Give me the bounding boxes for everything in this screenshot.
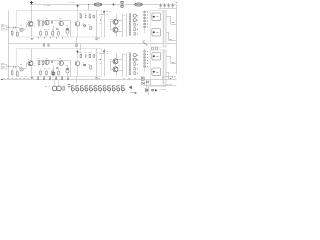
- wire driver emitters a: [116, 14, 117, 37]
- wire bus to ch2 box: [80, 44, 82, 51]
- arrow on feed wire a: [77, 5, 79, 7]
- capacitor C5-b: [56, 68, 58, 69]
- wire ground return under caps: [159, 8, 177, 10]
- transistor Q1-a: [27, 21, 34, 28]
- resistor R5-a: [90, 19, 101, 29]
- wire vertical 104 a: [104, 11, 106, 38]
- input connector J-a: [1, 25, 6, 30]
- capacitor C9 across rail: [121, 1, 123, 7]
- ground stubs a: [38, 37, 40, 39]
- ground stubs b: [38, 77, 40, 79]
- wire coupling a: [26, 24, 28, 28]
- terminal mark bus left end: [1, 79, 3, 81]
- wire driver outputs b: [118, 60, 122, 71]
- wire input b: [7, 66, 20, 67]
- electrolytic C3-a: [66, 26, 69, 37]
- micro labels bottom left: [3, 78, 33, 80]
- wire driver bases b: [110, 61, 113, 69]
- wire diode ladder b: [144, 49, 146, 73]
- resistor R2-a: [17, 30, 19, 37]
- heatsink b: [164, 50, 166, 87]
- ground symbol a: [31, 39, 34, 40]
- label near meters: [45, 86, 50, 88]
- label bottom right: [161, 89, 166, 91]
- component mid right pair: [152, 47, 158, 50]
- sense dots b: [137, 55, 138, 56]
- filter capacitor C12: [168, 3, 170, 8]
- diode D1-b: [84, 64, 86, 66]
- transistor Q2-a: [45, 19, 49, 25]
- tick on mid bus 1: [43, 44, 44, 46]
- wire vertical x53.5 a: [53, 26, 55, 37]
- transistor Q4-a: [75, 5, 81, 38]
- label bottom B: [61, 76, 63, 78]
- wire Q1 emitter b: [31, 68, 33, 77]
- diode ladder a: [144, 11, 148, 12]
- relay box bottom right: [141, 77, 144, 80]
- capacitor C2-b: [52, 61, 53, 64]
- resistor R4-b: [42, 60, 44, 67]
- arrow on feed wire b: [77, 51, 79, 53]
- resistor R4-a: [42, 21, 44, 28]
- wire B+ drop to Q1a: [31, 5, 33, 22]
- wire diode ladder a: [144, 11, 146, 34]
- arrow under header: [131, 92, 137, 94]
- bottom right wires: [144, 80, 177, 96]
- capacitor C1-b: [14, 66, 16, 69]
- output module box b: [151, 50, 164, 87]
- resistor row to ground a: [40, 29, 42, 37]
- output module box a: [151, 11, 164, 48]
- wire stage link b: [19, 67, 21, 69]
- label on wire right: [167, 84, 172, 86]
- diode ladder b: [144, 51, 148, 52]
- filter capacitor C10: [160, 3, 162, 8]
- diode D-br0: [142, 82, 145, 84]
- transistor Q2-b: [45, 59, 49, 65]
- wire stage link a: [19, 28, 21, 30]
- wire vertical x70.5 b: [70, 60, 72, 77]
- power transistor PKG1-a: [152, 13, 161, 20]
- trimmer VR-a: [20, 26, 23, 32]
- power transistor PKG2-a: [152, 29, 161, 36]
- resistor R1-b: [11, 69, 13, 77]
- meter circle M2: [57, 80, 62, 91]
- resistor R5-b: [90, 59, 101, 69]
- diode bottom right: [145, 89, 148, 92]
- component row a: [80, 14, 95, 19]
- labels near wire104 a: [106, 11, 111, 13]
- capacitor Cb1: [68, 85, 71, 89]
- label noise b: [28, 54, 126, 66]
- wire channel feed b: [31, 49, 33, 62]
- tick x113 on rail: [112, 3, 114, 5]
- driver transistor Q6-a: [113, 27, 118, 32]
- output wiring a: [166, 17, 176, 41]
- channel box b: [17, 49, 102, 77]
- wire B+ rail: [32, 4, 177, 6]
- label near feed arrow: [70, 2, 74, 4]
- wire left bus: [8, 11, 10, 80]
- component bottom right: [147, 81, 149, 83]
- sense dots a: [137, 15, 138, 16]
- power terminal B+: [30, 1, 33, 5]
- label input b: [1, 63, 4, 65]
- trimmer VR-b: [20, 65, 23, 72]
- transistor Q3-a: [59, 19, 63, 26]
- wire vertical 126 b: [126, 53, 128, 77]
- terminal ticks on bottom bus: [37, 77, 69, 80]
- filter capacitor C13: [172, 3, 174, 8]
- wire vertical x70.5 a: [70, 21, 72, 38]
- output wiring b: [163, 56, 177, 80]
- wire vertical x53.5 b: [53, 66, 55, 77]
- label noise a: [28, 15, 126, 27]
- resistor R3-b: [38, 59, 40, 68]
- resistor row to ground b: [40, 69, 42, 77]
- wire Q4 below box b: [76, 77, 78, 83]
- zener mark: [152, 89, 154, 91]
- wire coupling b: [26, 64, 28, 68]
- capacitor C2-a: [52, 21, 53, 24]
- diode D1-a: [84, 25, 86, 27]
- corner wire b: [99, 53, 104, 55]
- wire right bus: [176, 5, 178, 75]
- wire cluster rail b: [37, 60, 71, 62]
- driver transistor Q5-b: [113, 59, 118, 64]
- wire mid bus: [9, 43, 177, 45]
- capacitor C4-b extra: [53, 72, 55, 75]
- labels above bus right: [123, 78, 136, 80]
- channel box a: [17, 11, 102, 38]
- fuse F2: [135, 3, 143, 6]
- heatsink a: [164, 11, 166, 48]
- label mid row b: [44, 68, 50, 70]
- resistor R3-a: [38, 20, 40, 28]
- bias ladder resistors b: [129, 52, 136, 56]
- wire Q1 emitter a: [31, 28, 33, 37]
- arrow on wire104 a: [103, 11, 105, 13]
- wire vertical 122 b: [122, 53, 124, 77]
- label B+ 40V: [44, 5, 50, 7]
- tick on mid bus 2: [48, 44, 49, 46]
- bias ladder resistors a: [129, 13, 136, 17]
- resistor R1-a: [11, 29, 13, 37]
- ground symbol b: [31, 78, 34, 79]
- driver transistor Q5-a: [113, 19, 118, 24]
- power transistor PKG2-b: [152, 68, 161, 75]
- output marks b: [170, 63, 174, 79]
- wire vertical 122 a: [122, 14, 124, 38]
- wire driver bases a: [110, 22, 113, 30]
- capacitor C1-a: [14, 26, 16, 29]
- tick on mid bus 3: [76, 44, 77, 47]
- fuse F1: [94, 3, 102, 6]
- wire cluster rail a: [37, 20, 71, 22]
- pin header row: [71, 86, 124, 91]
- arrow small: [155, 89, 157, 91]
- corner mark top right: [176, 2, 178, 4]
- component row b: [80, 53, 95, 58]
- label input a: [1, 24, 4, 26]
- candle x96 b: [96, 77, 100, 79]
- input connector J-b: [1, 64, 6, 69]
- arrow mark: [129, 86, 132, 89]
- resistor Rb1: [63, 86, 65, 90]
- transistor Q3-b: [59, 59, 63, 66]
- driver transistor Q6-b: [113, 67, 118, 72]
- electrolytic C3-b: [66, 66, 69, 77]
- wire driver emitters b: [116, 54, 117, 77]
- wire vertical 126 a: [126, 14, 128, 38]
- wire Q4 below box a: [76, 37, 78, 43]
- arrow on wire104 b: [103, 51, 105, 53]
- ticks under header: [73, 91, 123, 93]
- wire feedback b: [19, 68, 26, 70]
- transistor Q1-b: [27, 61, 34, 68]
- candle x96 a: [96, 38, 100, 40]
- output marks a: [170, 23, 174, 40]
- wire input a: [7, 27, 20, 28]
- wire feedback a: [19, 29, 26, 31]
- capacitor C5-a: [56, 29, 58, 30]
- filter capacitor C11: [164, 3, 166, 8]
- label mid row a: [44, 29, 50, 31]
- wire driver outputs a: [118, 21, 122, 32]
- wire vertical 104 b: [104, 49, 106, 77]
- transistor Q4-b: [75, 49, 81, 77]
- wire vertical 96 a: [96, 11, 98, 38]
- resistor R2-b: [17, 70, 19, 77]
- meter circle M1: [52, 80, 57, 91]
- power transistor PKG1-b: [152, 53, 161, 60]
- wire vertical 96 b: [96, 49, 98, 77]
- bottom bus wire: [3, 79, 177, 81]
- labels near wire104 b: [106, 51, 111, 53]
- junction node x88: [88, 4, 89, 11]
- resistor mid right RX: [143, 41, 148, 46]
- corner wire a: [99, 14, 104, 16]
